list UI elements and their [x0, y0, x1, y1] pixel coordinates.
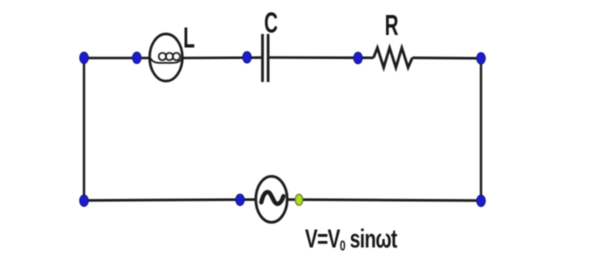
node: junction before capacitor: [243, 52, 252, 64]
svg-text:R: R: [385, 10, 399, 42]
resistor R (zigzag): [374, 48, 413, 68]
inductor L coil baseline: [151, 58, 183, 63]
wire: right rail (vertical): [480, 58, 482, 201]
inductor L (body circle): [150, 34, 183, 81]
node: top-left corner junction: [80, 52, 89, 64]
svg-text:V=V0 sinωt: V=V0 sinωt: [305, 223, 398, 253]
wire: top rail, node A to inductor: [84, 57, 151, 60]
wire: inductor to capacitor: [182, 56, 261, 59]
node: junction before source: [236, 194, 245, 206]
node: junction before inductor: [132, 52, 141, 64]
AC source U1 (body circle): [256, 176, 287, 222]
wire: resistor to top-right corner: [412, 56, 481, 59]
wire: source to bottom-right corner: [287, 200, 481, 201]
node: junction before resistor: [354, 52, 363, 64]
AC source sine symbol: [261, 192, 283, 204]
node: source output terminal (yellow-green): [295, 194, 303, 205]
wire: capacitor to resistor: [269, 56, 373, 59]
node: bottom-left corner junction: [80, 195, 89, 207]
svg-text:C: C: [264, 8, 278, 40]
node: bottom-right corner junction: [477, 195, 486, 207]
inductor L coil loop 2: [166, 53, 173, 60]
capacitor C left plate: [261, 34, 264, 82]
svg-text:L: L: [183, 23, 195, 55]
inductor L coil loop 3: [173, 53, 180, 60]
wire: bottom rail, left corner to source: [84, 198, 256, 201]
inductor L coil loop 1: [159, 53, 166, 60]
capacitor C right plate: [267, 34, 270, 82]
node: top-right corner junction: [477, 53, 486, 65]
wire: left rail (vertical): [83, 58, 85, 201]
